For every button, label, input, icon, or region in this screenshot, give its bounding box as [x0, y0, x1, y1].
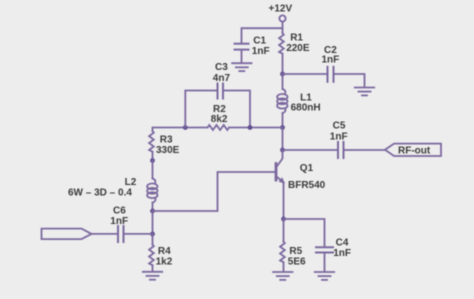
port input	[42, 229, 92, 240]
wire	[282, 22, 284, 33]
wire	[152, 161, 154, 179]
wire	[345, 149, 386, 151]
wire	[125, 233, 153, 235]
capacitor C4	[316, 238, 351, 260]
svg-text:1nF: 1nF	[110, 216, 128, 227]
svg-text:1nF: 1nF	[330, 131, 348, 142]
wire	[282, 74, 284, 89]
ground	[232, 63, 251, 71]
wire	[185, 91, 216, 128]
svg-text:R1: R1	[290, 32, 303, 43]
svg-text:+12V: +12V	[269, 4, 293, 15]
resistor R1	[279, 32, 310, 54]
wire	[153, 128, 208, 132]
node	[150, 232, 155, 237]
wire	[283, 73, 327, 75]
ground	[355, 88, 374, 96]
svg-text:1nF: 1nF	[252, 46, 270, 57]
wire	[282, 55, 284, 74]
wire	[282, 128, 284, 151]
ground	[273, 272, 292, 280]
capacitor C6	[110, 205, 128, 242]
resistor R2	[208, 104, 230, 130]
svg-text:C6: C6	[113, 205, 126, 216]
inductor L2	[68, 177, 158, 203]
svg-text:RF-out: RF-out	[398, 146, 431, 157]
inductor L1	[277, 89, 321, 113]
wire	[224, 91, 250, 128]
power +12V terminal	[269, 4, 293, 22]
transistor Q1	[276, 150, 326, 191]
svg-text:R4: R4	[158, 246, 171, 257]
resistor R3	[149, 131, 180, 161]
svg-text:Q1: Q1	[300, 163, 314, 174]
wire	[284, 219, 325, 247]
svg-text:330E: 330E	[156, 145, 180, 156]
svg-text:6W – 3D – 0.4: 6W – 3D – 0.4	[68, 187, 132, 198]
svg-text:4n7: 4n7	[213, 73, 231, 84]
wire	[241, 51, 243, 63]
capacitor C5	[330, 121, 348, 158]
wire	[152, 211, 154, 234]
wire	[229, 127, 282, 129]
wire	[242, 28, 283, 43]
svg-text:1nF: 1nF	[322, 54, 340, 65]
node	[281, 217, 286, 222]
svg-text:C5: C5	[333, 121, 346, 132]
wire	[92, 233, 118, 235]
ground	[143, 272, 162, 280]
resistor R5	[280, 219, 306, 271]
node	[183, 125, 188, 130]
ground	[315, 272, 334, 280]
capacitor C1	[235, 36, 270, 58]
node	[248, 125, 253, 130]
node	[280, 125, 285, 130]
wire	[283, 149, 338, 151]
svg-text:C1: C1	[253, 36, 266, 47]
svg-text:1k2: 1k2	[156, 256, 173, 267]
wire	[152, 203, 154, 212]
node	[280, 148, 285, 153]
node	[150, 158, 155, 163]
svg-text:BFR540: BFR540	[288, 180, 326, 191]
port RF-out	[385, 144, 441, 157]
svg-text:C4: C4	[336, 238, 349, 249]
svg-text:220E: 220E	[286, 43, 310, 54]
svg-text:8k2: 8k2	[211, 114, 228, 125]
resistor R4	[149, 234, 173, 271]
capacitor C3	[213, 62, 231, 99]
svg-text:680nH: 680nH	[291, 102, 321, 113]
svg-text:1nF: 1nF	[333, 248, 351, 259]
svg-text:R3: R3	[160, 134, 173, 145]
capacitor C2	[322, 45, 340, 82]
wire	[282, 113, 284, 128]
wire	[335, 74, 365, 87]
node	[280, 72, 285, 77]
node	[150, 209, 155, 214]
svg-text:5E6: 5E6	[288, 256, 306, 267]
wire	[283, 183, 285, 220]
wire	[153, 172, 275, 211]
svg-text:C3: C3	[215, 62, 228, 73]
wire	[324, 254, 326, 272]
